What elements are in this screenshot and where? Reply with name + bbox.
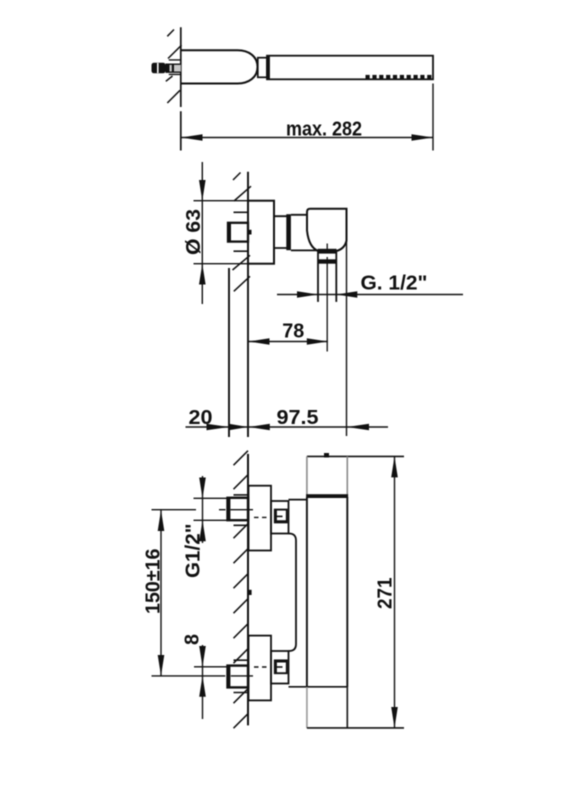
svg-text:max. 282: max. 282 [286, 119, 362, 141]
wall left line (middle) [228, 268, 230, 437]
dim line 271 [394, 456, 396, 728]
inlet stub top [289, 499, 307, 501]
dim line diameter 63 [201, 162, 203, 304]
svg-text:Ø 63: Ø 63 [183, 209, 205, 255]
fitting nub on wall face [248, 230, 252, 235]
shower head body [181, 50, 258, 83]
neck part B [291, 215, 318, 251]
bottom divider + inlet stub bottom [289, 686, 348, 688]
arrow up (G1/2) [199, 520, 206, 541]
wall hatch h1 [167, 30, 174, 37]
spray nozzle dots [366, 75, 432, 79]
body right edge extension down [346, 241, 348, 437]
arrow up (8) [199, 676, 206, 697]
arrow from 248 (97.5 left) [248, 424, 269, 430]
G1/2 extensions [194, 498, 228, 520]
wall hatch m1 [233, 173, 241, 181]
fitting top bold left [227, 498, 230, 520]
extension top (d63) [194, 200, 275, 202]
neck between flange and body [274, 216, 287, 248]
neck ring (bold) [286, 214, 291, 250]
shower handle [267, 56, 433, 80]
body top edge + extension [307, 455, 404, 457]
union nut bottom [271, 651, 289, 684]
arrow down (8) [199, 646, 206, 667]
valve body (cup shape) [307, 209, 347, 251]
extension bottom (d63) [194, 263, 275, 265]
arrow down (d63) [199, 180, 206, 201]
8 dim vertical [202, 645, 204, 719]
wall hatch h3 [166, 76, 173, 81]
pipe stubs bottom fitting [234, 660, 248, 692]
svg-text:20: 20 [189, 407, 213, 429]
inner square top [275, 510, 287, 523]
hose connector shaft [166, 64, 181, 72]
body top nub [324, 453, 329, 458]
inner square bottom [275, 660, 287, 673]
dimension line max. 282 [181, 137, 433, 139]
svg-text:271: 271 [375, 578, 397, 610]
cone flare lines [169, 60, 181, 75]
wall hatch m3 [233, 255, 251, 270]
handle bold end [267, 56, 270, 80]
port centerline dash bottom [254, 666, 267, 668]
port centerline dash top [254, 516, 267, 518]
hose nut ring 1 [318, 249, 337, 254]
svg-text:150±16: 150±16 [143, 549, 165, 615]
top cap sides (light) [307, 456, 347, 495]
arrow down (271) [391, 707, 398, 728]
fitting bold left edge [228, 223, 231, 242]
arrow to 248 inside (20 right) [230, 424, 249, 430]
arrow down (G1/2) [199, 478, 206, 499]
arrow up (d63) [199, 264, 206, 285]
inner tick top [275, 515, 283, 517]
8 extension (port centerline) [194, 666, 230, 668]
outlet centerline [326, 244, 328, 352]
arrow to 229 (20 left) [207, 424, 230, 430]
bottom cap sides (light) [306, 687, 308, 728]
arrow right (78) [307, 338, 328, 345]
shower neck [258, 58, 267, 78]
connecting tube [289, 534, 297, 652]
pipe stub below fitting [234, 250, 248, 252]
wall right line (middle) [247, 172, 249, 437]
escutcheon bottom [249, 636, 272, 701]
body sides [307, 497, 347, 687]
arrow right-pointing (G1/2) [297, 291, 318, 298]
dim line G. 1/2 [277, 294, 463, 296]
arrow left (78) [249, 338, 270, 345]
extension bottom (150) wall-conn centerline [152, 675, 254, 677]
dim line 78 [249, 341, 328, 343]
wall hatch m2 [234, 186, 251, 201]
svg-text:97.5: 97.5 [277, 407, 319, 429]
arrow up (150) [158, 510, 165, 531]
wall line (top drawing) [180, 27, 182, 150]
pipe stubs top fitting [234, 495, 248, 525]
wall hatch h2 [168, 45, 182, 58]
extension line right (max.282) [432, 84, 434, 151]
arrow left-pointing (G1/2) [336, 291, 357, 298]
concealed fitting top [228, 498, 249, 520]
wall mid nub [248, 590, 252, 595]
arrow right (max.282) [412, 134, 434, 141]
svg-text:G1/2": G1/2" [183, 524, 205, 579]
svg-text:G. 1/2": G. 1/2" [361, 273, 428, 295]
wall hatches (bottom) [234, 451, 249, 729]
union nut top [271, 501, 289, 534]
concealed fitting (middle) [228, 223, 248, 242]
wall line (bottom) [247, 454, 249, 726]
arrow left (max.282) [181, 134, 203, 141]
dim line 150+-16 [160, 510, 162, 676]
wall flange (escutcheon, side) [248, 201, 274, 264]
hose nut ring 2 [318, 259, 337, 263]
G1/2 dim verticals [202, 476, 204, 543]
escutcheon top [249, 486, 272, 551]
fitting bottom bold left [227, 666, 230, 688]
extension top (150) wall-conn centerline [152, 509, 254, 511]
outlet pipe [318, 250, 336, 302]
arrow up (271) [391, 456, 398, 477]
dim line 20 / 97.5 [186, 426, 389, 428]
body bottom edge + extension [307, 727, 404, 729]
inner tick bottom [275, 666, 283, 668]
inner square bottom bold left+top [275, 660, 287, 673]
concealed fitting bottom [228, 666, 249, 688]
arrow down (150) [158, 655, 165, 676]
svg-text:78: 78 [282, 321, 304, 343]
arrow to 347 (97.5 right) [347, 424, 369, 430]
bold divider top [306, 494, 348, 498]
svg-text:8: 8 [182, 634, 204, 645]
wall hatch h4 [167, 90, 180, 103]
wall hatch m4 [234, 276, 250, 291]
hose connector knob [152, 63, 166, 74]
inner square top bold left+bottom [275, 510, 287, 523]
pipe stub above fitting [234, 211, 248, 213]
